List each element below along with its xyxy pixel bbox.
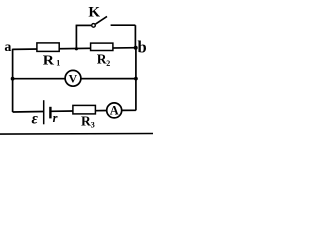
svg-text:2: 2 [106,59,110,68]
wire: bottom left segment to battery [13,111,43,114]
switch K contact circle [92,24,96,28]
svg-text:R: R [43,53,54,68]
wire: switch branch right leg [134,25,136,48]
svg-text:R: R [81,113,91,128]
switch K blade [96,16,108,24]
label R1 [43,53,60,68]
svg-text:K: K [88,4,100,20]
svg-text:1: 1 [56,59,60,68]
junction dot left middle [11,77,15,81]
wire: switch branch right horizontal [111,24,136,26]
voltmeter V [65,70,81,86]
junction dot right middle [134,77,138,81]
svg-text:3: 3 [91,120,95,129]
node b label [138,38,147,57]
wire: switch branch left leg [75,25,77,49]
wire: left vertical rail [12,49,14,112]
wire: middle horizontal (voltmeter branch) [13,78,136,80]
node b junction dot [134,46,138,50]
svg-text:A: A [110,104,119,118]
svg-text:ε: ε [32,110,39,127]
resistor R2 [91,43,113,50]
battery negative short plate [49,107,51,119]
svg-text:r: r [53,111,58,125]
label emf epsilon [32,110,39,127]
bottom rule line [0,133,153,136]
svg-text:b: b [138,38,147,57]
resistor R3 [73,105,96,114]
resistor R1 [37,43,59,52]
label internal resistance r [53,111,58,125]
wire: right vertical rail [135,47,137,110]
label R3 [81,113,95,129]
label K [88,4,100,20]
label R2 [97,52,110,68]
wire: battery to R3 segment [52,110,74,112]
wire: top horizontal a-to-b [12,48,135,50]
battery positive long plate [43,100,45,124]
wire: switch branch left horizontal [76,24,92,26]
wire: ammeter to right rail segment [122,109,136,111]
ammeter A [107,103,122,118]
svg-text:V: V [69,72,78,86]
node a label [4,40,11,55]
wire: R3 to ammeter segment [95,110,107,112]
svg-text:a: a [4,40,11,55]
junction dot at R1-R2-switch node [75,47,78,50]
